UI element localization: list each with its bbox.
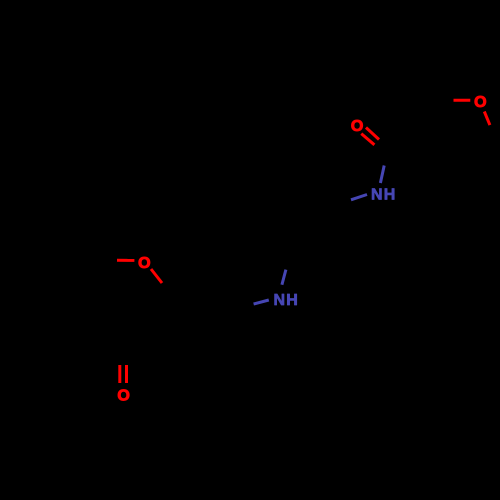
wire: ketone C=O double bond line 2 (red half) bbox=[125, 365, 128, 383]
svg-text:O: O bbox=[351, 118, 363, 135]
svg-text:O: O bbox=[117, 387, 129, 404]
wire: secondary amine N-C bond up (blue half) bbox=[282, 270, 286, 285]
svg-text:O: O bbox=[138, 255, 150, 272]
svg-text:O: O bbox=[474, 94, 486, 111]
wire: amide C=O double bond line 1 (red half) bbox=[366, 128, 379, 140]
wire: amide N-C(=O) bond (blue half) bbox=[380, 166, 384, 184]
wire: ketone C=O double bond line 1 (red half) bbox=[118, 365, 121, 383]
wire: oxane ring O-C bond (down-right half, red) bbox=[484, 112, 490, 126]
svg-text:NH: NH bbox=[371, 187, 397, 204]
wire: chromene ring O bond down-right (red half) bbox=[151, 269, 162, 283]
wire: amide C=O double bond line 2 (red half) bbox=[361, 134, 374, 145]
wire: oxane ring O-C bond (left half, red) bbox=[454, 99, 471, 102]
wire: chromene ring O bond left (red half) bbox=[117, 259, 134, 262]
wire: amide N-CH2 bond (blue half) bbox=[351, 195, 367, 200]
wire: secondary amine N-C bond down-left (blue half) bbox=[254, 300, 269, 304]
svg-text:NH: NH bbox=[273, 292, 299, 309]
